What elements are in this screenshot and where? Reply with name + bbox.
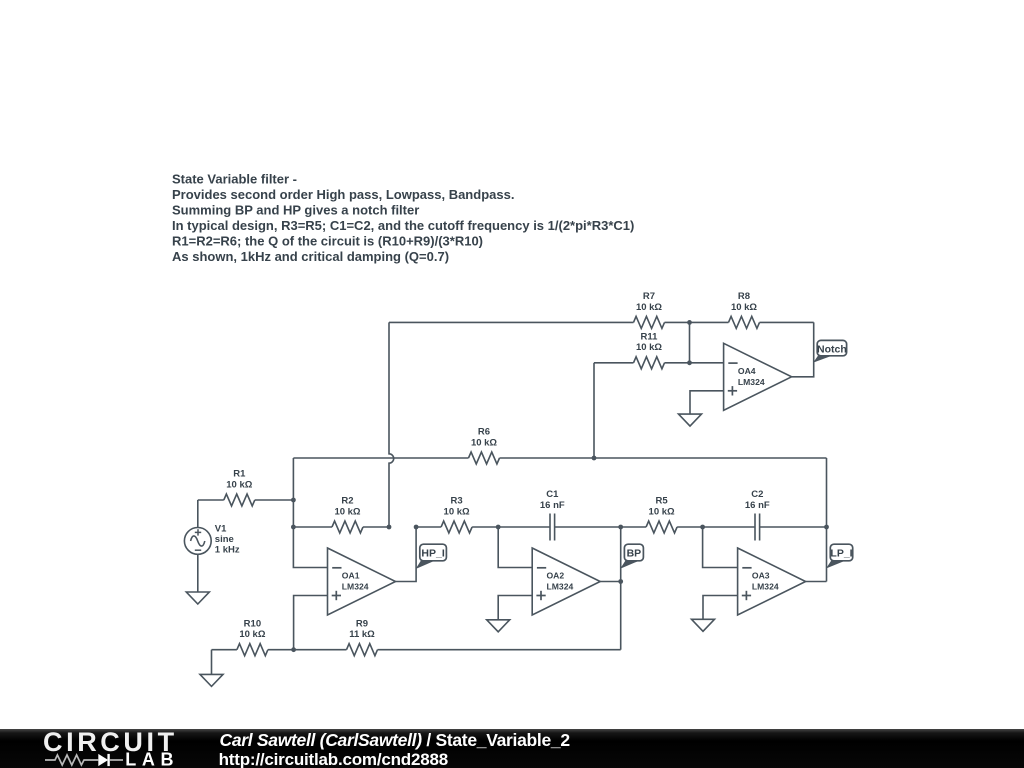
- node E (R6-R11 junction): [592, 456, 597, 461]
- svg-text:R10: R10: [244, 618, 261, 629]
- wire BP node vertical: [620, 527, 622, 650]
- wire R7-R11 junction vertical: [689, 322, 691, 362]
- wire R8 to OA4 output: [792, 322, 814, 376]
- svg-text:10 kΩ: 10 kΩ: [471, 437, 497, 448]
- svg-text:C1: C1: [546, 489, 559, 500]
- svg-text:OA1: OA1: [342, 571, 360, 581]
- capacitor C1: [498, 489, 621, 541]
- wire OA3 non-inverting to ground: [703, 596, 738, 620]
- wire to OA3 inverting input: [703, 527, 738, 568]
- voltage source V1: [184, 524, 239, 556]
- svg-text:OA2: OA2: [547, 571, 565, 581]
- CircuitLab logo resistor-diode glyph: [45, 754, 123, 766]
- svg-text:R11: R11: [641, 332, 659, 343]
- wire to OA4 inverting input: [690, 362, 724, 364]
- svg-text:LM324: LM324: [342, 582, 369, 592]
- resistor R9: [294, 618, 621, 655]
- node A (R1-R2 junction): [291, 498, 296, 503]
- svg-text:R5: R5: [656, 496, 669, 507]
- flag BP: [620, 544, 643, 569]
- resistor R11: [594, 332, 690, 369]
- footer bar: [0, 729, 1024, 768]
- svg-text:LM324: LM324: [752, 582, 779, 592]
- ground: [487, 620, 510, 632]
- svg-text:10 kΩ: 10 kΩ: [226, 479, 252, 490]
- ground: [186, 592, 209, 604]
- wire OA1 non-inverting input: [294, 596, 328, 650]
- svg-text:R1: R1: [233, 469, 246, 480]
- svg-text:State Variable filter -: State Variable filter -: [172, 172, 297, 187]
- svg-text:R8: R8: [738, 291, 750, 302]
- svg-text:R6: R6: [478, 427, 490, 438]
- svg-text:10 kΩ: 10 kΩ: [636, 342, 662, 353]
- svg-text:16 nF: 16 nF: [745, 500, 770, 511]
- wire OA3 output: [806, 581, 827, 583]
- flag HP_I: [416, 544, 447, 569]
- svg-text:http://circuitlab.com/cnd2888: http://circuitlab.com/cnd2888: [219, 750, 448, 768]
- ground: [200, 674, 223, 686]
- svg-text:Notch: Notch: [817, 343, 847, 355]
- svg-text:10 kΩ: 10 kΩ: [731, 302, 757, 313]
- svg-text:In typical design, R3=R5; C1=C: In typical design, R3=R5; C1=C2, and the…: [172, 218, 634, 233]
- svg-text:LM324: LM324: [547, 582, 574, 592]
- node HP: [414, 525, 419, 530]
- svg-text:Provides second order High pas: Provides second order High pass, Lowpass…: [172, 187, 514, 202]
- op-amp OA3: [738, 548, 806, 615]
- resistor R3: [416, 496, 498, 533]
- svg-text:LP_I: LP_I: [830, 548, 852, 560]
- node D (R5-C2 junction): [700, 525, 705, 530]
- svg-text:R3: R3: [451, 496, 463, 507]
- wire R10 to ground: [211, 650, 213, 675]
- ground: [692, 619, 715, 631]
- node BP output junction: [618, 579, 623, 584]
- node BP (C1-R5 junction): [618, 525, 623, 530]
- wire OA2 output: [600, 581, 621, 583]
- svg-text:R7: R7: [643, 291, 655, 302]
- wire left bus to OA1 inverting input: [293, 458, 327, 568]
- svg-text:As shown, 1kHz and critical da: As shown, 1kHz and critical damping (Q=0…: [172, 249, 449, 264]
- resistor R5: [621, 496, 703, 533]
- svg-text:R9: R9: [356, 618, 368, 629]
- op-amp OA2: [532, 548, 600, 615]
- svg-text:LM324: LM324: [738, 377, 765, 387]
- wire OA4 non-inverting to ground: [690, 391, 724, 414]
- wire V1 minus to ground: [197, 554, 199, 592]
- description text: [172, 172, 634, 265]
- svg-text:HP_I: HP_I: [421, 548, 444, 560]
- svg-text:C2: C2: [751, 489, 763, 500]
- svg-text:11 kΩ: 11 kΩ: [349, 629, 375, 640]
- flag LP_I: [826, 544, 853, 568]
- node C (R3-C1 junction): [496, 525, 501, 530]
- svg-text:16 nF: 16 nF: [540, 500, 565, 511]
- capacitor C2: [703, 489, 827, 541]
- node B (R2 left): [291, 525, 296, 530]
- resistor R6: [293, 427, 826, 464]
- resistor R8: [690, 291, 814, 328]
- svg-text:R1=R2=R6; the Q of the circuit: R1=R2=R6; the Q of the circuit is (R10+R…: [172, 234, 483, 249]
- svg-text:LAB: LAB: [125, 750, 179, 768]
- flag Notch: [813, 340, 847, 362]
- wire OA1 output to HP node: [396, 527, 417, 582]
- op-amp OA1: [328, 548, 396, 615]
- resistor R2: [293, 496, 389, 533]
- wire R6 node up to R11: [593, 363, 595, 458]
- svg-text:1 kHz: 1 kHz: [215, 544, 240, 555]
- op-amp OA4: [724, 343, 792, 410]
- resistor R1: [198, 469, 294, 506]
- svg-text:BP: BP: [627, 548, 642, 560]
- wire to OA2 inverting input: [498, 527, 532, 568]
- svg-text:OA3: OA3: [752, 571, 770, 581]
- node HP (R2-R7 junction): [387, 525, 392, 530]
- ground: [679, 414, 702, 426]
- svg-text:R2: R2: [341, 496, 353, 507]
- node G (R7-R8 junction): [687, 320, 692, 325]
- wire HP node up to R7 (hop over R6 wire): [389, 322, 394, 527]
- svg-text:10 kΩ: 10 kΩ: [334, 506, 360, 517]
- svg-text:Carl Sawtell (CarlSawtell) / S: Carl Sawtell (CarlSawtell) / State_Varia…: [220, 730, 571, 750]
- node H (R10-R9 junction): [291, 647, 296, 652]
- wire LP node vertical: [826, 458, 828, 582]
- node LP (C2 junction): [824, 525, 829, 530]
- node F (R11-OA4 junction): [687, 360, 692, 365]
- wire OA2 non-inverting to ground: [498, 596, 532, 620]
- svg-text:OA4: OA4: [738, 366, 756, 376]
- svg-text:Summing BP and HP gives a notc: Summing BP and HP gives a notch filter: [172, 203, 419, 218]
- resistor R10: [212, 618, 294, 655]
- svg-text:10 kΩ: 10 kΩ: [444, 506, 470, 517]
- svg-text:10 kΩ: 10 kΩ: [649, 506, 675, 517]
- wire V1 plus to R1: [197, 500, 199, 528]
- svg-text:10 kΩ: 10 kΩ: [636, 302, 662, 313]
- resistor R7: [389, 291, 690, 328]
- svg-text:10 kΩ: 10 kΩ: [239, 629, 265, 640]
